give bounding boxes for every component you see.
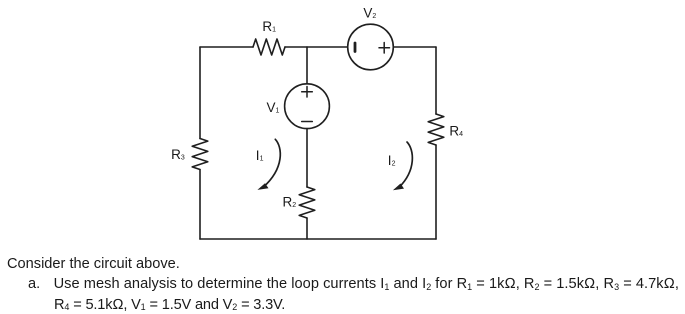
wire node A down to V1 <box>306 47 308 84</box>
svg-text:R1: R1 <box>262 19 276 34</box>
loop current I2 arrow <box>393 142 412 190</box>
voltage source V1 <box>285 84 330 129</box>
V1 minus sign <box>302 121 313 123</box>
wire V2 to top-right corner <box>393 46 436 48</box>
loop current I1 arrow <box>257 139 280 190</box>
label R1 <box>262 19 276 34</box>
V2 plus sign <box>379 43 390 54</box>
svg-text:R4: R4 <box>449 123 463 138</box>
label V1 <box>267 100 280 115</box>
svg-text:I1: I1 <box>256 148 264 163</box>
label R3 <box>171 147 185 162</box>
label V2 <box>363 6 376 21</box>
label R4 <box>449 123 463 138</box>
label I2 <box>388 153 396 168</box>
question text line 3 <box>54 297 285 313</box>
wire right upper segment <box>435 47 437 114</box>
question text line 2 <box>28 276 40 292</box>
wire left lower segment <box>199 170 201 240</box>
resistor R4 <box>428 114 444 145</box>
wire left upper segment <box>199 47 201 139</box>
question text line 1 <box>7 256 180 272</box>
label R2 <box>283 195 297 210</box>
V2 minus terminal bar <box>354 43 357 52</box>
node A (junction of R1, V2, middle branch) <box>307 46 348 48</box>
label I1 <box>256 148 264 163</box>
svg-text:V2: V2 <box>363 6 376 21</box>
wire V1 to R2 <box>306 129 308 187</box>
resistor R1 <box>253 39 285 55</box>
wire R2 to bottom <box>306 218 308 239</box>
svg-text:R3: R3 <box>171 147 185 162</box>
svg-text:V1: V1 <box>267 100 280 115</box>
wire R1 to node A <box>285 46 307 48</box>
svg-text:R2: R2 <box>283 195 297 210</box>
V1 plus sign <box>302 87 313 98</box>
wire bottom <box>200 238 436 240</box>
wire top-left segment <box>200 46 253 48</box>
resistor R3 <box>192 139 208 170</box>
svg-text:I2: I2 <box>388 153 396 168</box>
wire right lower segment <box>435 145 437 239</box>
resistor R2 <box>299 187 315 218</box>
voltage source V2 <box>348 24 394 70</box>
